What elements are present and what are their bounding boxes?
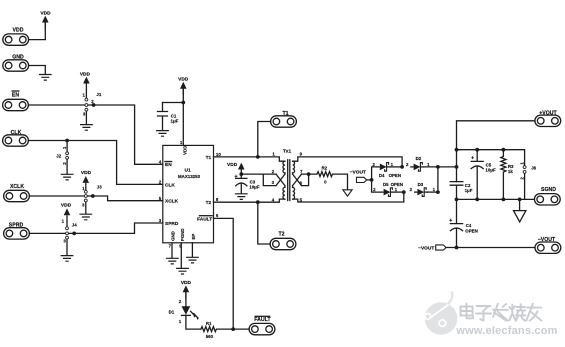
junction — [518, 198, 522, 202]
svg-text:VDD: VDD — [182, 146, 187, 155]
wire — [241, 174, 263, 178]
svg-text:www.elecfans.com: www.elecfans.com — [455, 325, 557, 337]
wire — [185, 293, 187, 307]
connector SGND — [534, 194, 560, 205]
connector -VOUT — [535, 242, 561, 253]
ground — [85, 111, 87, 124]
wire — [29, 22, 46, 39]
svg-text:GND: GND — [171, 231, 176, 241]
wire EN net — [28, 105, 162, 164]
svg-text:EN: EN — [165, 162, 172, 168]
junction — [502, 198, 506, 202]
svg-text:−VOUT: −VOUT — [418, 245, 434, 251]
svg-text:D2: D2 — [416, 156, 422, 161]
svg-text:OPEN: OPEN — [389, 173, 401, 178]
svg-text:XCLK: XCLK — [10, 184, 24, 190]
diode D2 (Schottky) — [410, 163, 424, 172]
diode D3 (Schottky) — [414, 188, 428, 197]
junction — [436, 190, 440, 194]
connector P4 CLK — [3, 135, 29, 146]
svg-text:VDD: VDD — [40, 10, 51, 16]
junction — [91, 194, 95, 198]
capacitor C5 10uF — [471, 150, 483, 200]
svg-text:560: 560 — [206, 334, 214, 339]
ground — [156, 131, 169, 137]
resistor R2 0 — [309, 172, 348, 190]
svg-text:D1: D1 — [169, 310, 175, 315]
svg-text:VDD: VDD — [227, 162, 238, 168]
svg-text:10μF: 10μF — [485, 168, 496, 173]
wire — [394, 191, 404, 193]
capacitor C4 (OPEN) — [450, 199, 462, 247]
wire -VOUT net — [446, 247, 535, 249]
svg-text:Tx1: Tx1 — [283, 148, 292, 154]
svg-text:MAX13253: MAX13253 — [178, 174, 201, 179]
ground — [66, 239, 68, 255]
connector T2 — [270, 238, 296, 249]
svg-text:EN: EN — [12, 93, 19, 99]
wire SPRD net — [29, 223, 162, 233]
jumper J1 — [85, 90, 87, 98]
svg-text:1μF: 1μF — [465, 188, 473, 193]
svg-text:VDD: VDD — [81, 170, 92, 176]
junction — [455, 246, 459, 250]
svg-text:VDD: VDD — [61, 203, 72, 209]
junction — [455, 198, 459, 202]
junction — [475, 148, 479, 152]
wire -VOUT diode bus — [372, 167, 381, 192]
svg-text:XCLK: XCLK — [165, 199, 179, 205]
svg-text:PGND: PGND — [180, 228, 185, 241]
IC U1 MAX13253 — [163, 145, 214, 242]
svg-text:T2: T2 — [206, 200, 212, 206]
wire (D2/D3 cathode tie) — [437, 167, 439, 192]
junction (pins 6-7 tie) — [307, 172, 311, 176]
wire — [428, 191, 438, 193]
watermark text — [461, 304, 542, 322]
diode D5 (Schottky, OPEN) — [380, 188, 394, 197]
wire SGND bottom bus — [457, 174, 535, 200]
svg-text:CLK: CLK — [11, 130, 22, 136]
ground (analog triangle) — [519, 199, 521, 210]
connector +VOUT — [535, 115, 561, 126]
connector P5 XCLK — [4, 190, 30, 201]
svg-text:J2: J2 — [56, 154, 61, 159]
connector P3 EN — [3, 99, 29, 110]
svg-text:SPRD: SPRD — [9, 222, 24, 228]
svg-text:+VOUT: +VOUT — [539, 110, 557, 116]
svg-text:T1: T1 — [282, 111, 288, 117]
svg-text:EP: EP — [191, 234, 196, 240]
svg-text:10μF: 10μF — [249, 185, 260, 190]
svg-text:C1: C1 — [171, 113, 177, 118]
svg-text:T1: T1 — [206, 155, 212, 161]
chip ground PGND pin — [180, 243, 182, 268]
svg-text:+: + — [234, 174, 237, 180]
junction node T2 — [256, 200, 260, 204]
wire — [29, 66, 46, 75]
svg-text:OPEN: OPEN — [465, 228, 477, 233]
wire — [186, 315, 201, 329]
chip ground GND pin — [171, 243, 173, 258]
resistor R3 1k — [501, 150, 506, 200]
capacitor C1 1uF — [158, 103, 168, 131]
power VDD — [42, 16, 49, 30]
junction — [65, 139, 69, 143]
wire CLK net — [28, 141, 162, 185]
char fa — [493, 304, 508, 321]
svg-text:1μF: 1μF — [171, 119, 179, 124]
svg-text:J6: J6 — [531, 166, 536, 171]
chip ground EP pin — [191, 243, 193, 257]
jumper J3 — [85, 188, 87, 191]
svg-text:C3: C3 — [250, 179, 256, 184]
wire to T2 connector — [258, 202, 270, 244]
svg-text:−VOUT: −VOUT — [350, 169, 366, 175]
ground (analog triangle) — [343, 190, 352, 196]
svg-text:FAULT: FAULT — [254, 317, 271, 323]
junction — [502, 148, 506, 152]
svg-text:D3: D3 — [418, 182, 424, 187]
char shao — [509, 304, 525, 321]
svg-text:J4: J4 — [72, 223, 77, 228]
connector T1 — [271, 116, 297, 127]
wire XCLK net — [29, 196, 162, 201]
junction — [455, 148, 459, 152]
connector FAULT — [249, 323, 275, 334]
wire — [390, 166, 402, 168]
junction — [402, 190, 406, 194]
resistor R1 560 — [201, 327, 233, 332]
ground — [66, 159, 68, 174]
connector P2 GND — [3, 60, 29, 71]
svg-text:SPRD: SPRD — [165, 221, 179, 227]
junction — [400, 165, 404, 169]
svg-text:D5: D5 — [383, 182, 389, 187]
wire chip T2 pin — [214, 201, 258, 203]
svg-text:D4: D4 — [379, 173, 385, 178]
wire — [424, 166, 456, 168]
svg-text:J1: J1 — [96, 92, 101, 97]
svg-text:R2: R2 — [321, 166, 327, 171]
svg-text:VDD: VDD — [181, 280, 192, 286]
svg-text:VDD: VDD — [80, 71, 91, 77]
junction — [370, 178, 374, 182]
svg-text:R1: R1 — [206, 321, 212, 326]
svg-text:FAULT: FAULT — [197, 216, 212, 222]
jumper J2 — [66, 141, 68, 152]
junction — [181, 101, 185, 105]
wire +VOUT top bus — [457, 150, 525, 166]
svg-text:C4: C4 — [466, 223, 472, 228]
svg-text:OPEN: OPEN — [391, 182, 403, 187]
svg-text:10: 10 — [216, 152, 221, 157]
junction node T1 — [256, 155, 260, 159]
junction — [436, 165, 440, 169]
wire +VOUT net — [457, 121, 535, 182]
junction — [72, 232, 76, 236]
svg-text:U1: U1 — [185, 168, 191, 174]
wire — [367, 179, 372, 181]
junction — [239, 172, 243, 176]
svg-text:CLK: CLK — [165, 182, 175, 188]
ground — [235, 194, 248, 200]
ground — [85, 202, 87, 214]
diode D4 (Schottky, OPEN) — [376, 163, 390, 172]
wire to T1 connector — [258, 122, 271, 157]
char dian — [461, 304, 474, 319]
junction — [92, 103, 96, 107]
junction — [475, 198, 479, 202]
connector P6 SPRD — [4, 228, 30, 239]
svg-text:T2: T2 — [278, 232, 284, 238]
capacitor C2 1uF — [450, 182, 463, 200]
wire chip T1 pin — [214, 156, 258, 158]
ground — [39, 75, 52, 81]
svg-text:+: + — [449, 218, 452, 224]
watermark logo — [425, 292, 458, 335]
junction — [231, 327, 235, 331]
svg-text:1k: 1k — [508, 169, 513, 174]
jumper J6 — [523, 166, 526, 169]
junction — [455, 165, 459, 169]
svg-text:VDD: VDD — [178, 76, 189, 82]
wire FAULT net — [214, 218, 250, 329]
transformer Tx1 — [258, 148, 404, 202]
svg-text:VDD: VDD — [13, 27, 24, 33]
jumper J4 — [66, 222, 68, 227]
wire VDD to chip — [163, 89, 184, 145]
svg-text:J3: J3 — [97, 184, 102, 189]
char you — [527, 304, 542, 321]
svg-text:GND: GND — [12, 55, 24, 61]
connector P1 VDD — [3, 34, 29, 45]
svg-text:+: + — [471, 156, 474, 162]
svg-text:−VOUT: −VOUT — [538, 237, 556, 243]
char zi — [476, 306, 491, 321]
svg-text:SGND: SGND — [541, 187, 556, 193]
